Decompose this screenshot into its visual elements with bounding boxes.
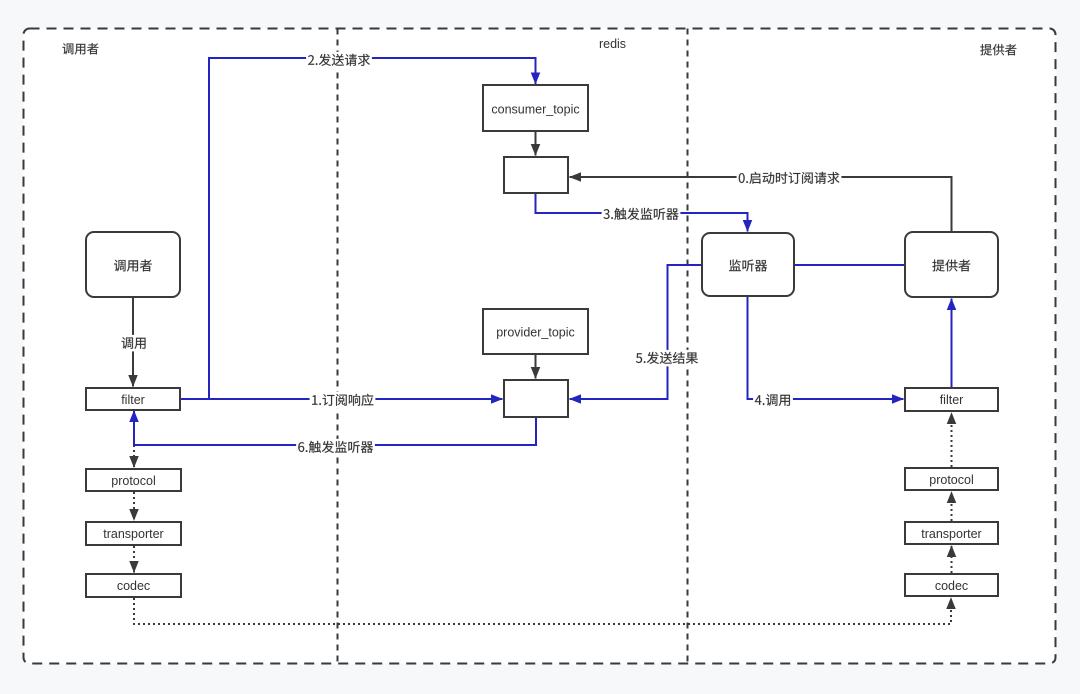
svg-text:codec: codec bbox=[117, 579, 150, 593]
box: provider_topic bbox=[483, 309, 588, 354]
box: transporter (left) bbox=[86, 522, 181, 545]
wire: codec(R) to transporter(R) dotted arrow bbox=[951, 546, 953, 574]
wire: provider_topic to queue box solid arrow bbox=[535, 354, 537, 379]
svg-text:provider_topic: provider_topic bbox=[496, 326, 575, 340]
box: codec (right) bbox=[905, 574, 998, 596]
label: 5.发送结果 bbox=[634, 350, 700, 367]
wire: 调用者 box to filter(L) solid arrow bbox=[132, 297, 134, 387]
svg-text:transporter: transporter bbox=[921, 527, 981, 541]
divider: caller/redis dashed separator bbox=[337, 29, 339, 664]
wire: 监听器 to 提供者 blue link bbox=[794, 264, 905, 266]
label: 1.订阅响应 bbox=[310, 392, 376, 409]
wire: transporter(R) to protocol(R) dotted arrow bbox=[951, 492, 953, 522]
label: 2.发送请求 bbox=[306, 52, 372, 69]
wire: 2.发送请求 from filter(L) to consumer_topic bbox=[180, 58, 536, 399]
svg-text:protocol: protocol bbox=[111, 474, 155, 488]
svg-text:codec: codec bbox=[935, 579, 968, 593]
wire: 1.订阅响应 from filter(L) to provider queue bbox=[180, 398, 503, 400]
wire: codec(L) to codec(R) dotted path bbox=[134, 598, 951, 625]
label: section 调用者 (caller) bbox=[62, 43, 98, 54]
svg-text:redis: redis bbox=[599, 37, 626, 51]
wire: consumer_topic to queue box solid arrow bbox=[535, 131, 537, 156]
wire: protocol(R) to filter(R) dotted arrow bbox=[951, 413, 953, 468]
svg-text:protocol: protocol bbox=[929, 473, 973, 487]
wire: transporter(L) to codec(L) dotted arrow bbox=[133, 546, 135, 573]
wire: 6.触发监听器 from provider queue to filter(L) bbox=[134, 411, 536, 446]
box: protocol (right) bbox=[905, 468, 998, 490]
box: consumer queue (unlabeled) bbox=[504, 157, 568, 193]
svg-text:transporter: transporter bbox=[103, 527, 163, 541]
wire: filter(L) to protocol(L) dotted arrow bbox=[133, 410, 135, 468]
box: 提供者 (provider, rounded) bbox=[905, 232, 998, 297]
wire: 4.调用 from 监听器 to filter(R) bbox=[748, 296, 904, 399]
divider: redis/provider dashed separator bbox=[687, 29, 689, 664]
wire: 3.触发监听器 from consumer queue to 监听器 bbox=[536, 193, 748, 232]
box: consumer_topic bbox=[483, 85, 588, 131]
box: provider queue (unlabeled) bbox=[504, 380, 568, 417]
label: 3.触发监听器 bbox=[602, 206, 681, 223]
label: 调用 on caller-to-filter wire bbox=[120, 335, 149, 352]
label: 6.触发监听器 bbox=[296, 439, 375, 456]
wire: filter(R) to 提供者 blue arrow bbox=[951, 299, 953, 389]
svg-text:filter: filter bbox=[940, 393, 964, 407]
wire: 0.启动时订阅请求 from 提供者 to consumer queue bbox=[570, 177, 952, 232]
box: 监听器 (listener, rounded) bbox=[702, 233, 794, 296]
svg-text:filter: filter bbox=[121, 393, 145, 407]
label: 4.调用 bbox=[753, 392, 793, 409]
svg-text:consumer_topic: consumer_topic bbox=[491, 103, 579, 117]
box: transporter (right) bbox=[905, 522, 998, 544]
box: filter (right) bbox=[905, 388, 998, 411]
box: protocol (left) bbox=[86, 469, 181, 491]
box: 调用者 (caller, rounded) bbox=[86, 232, 180, 297]
label: section 提供者 (provider) bbox=[980, 44, 1016, 55]
wire: 5.发送结果 from 监听器 to provider queue bbox=[570, 265, 703, 399]
label: 0.启动时订阅请求 bbox=[737, 170, 842, 187]
wire: protocol(L) to transporter(L) dotted arrow bbox=[133, 492, 135, 521]
box: codec (left) bbox=[86, 574, 181, 597]
box: filter (left) bbox=[86, 388, 180, 410]
